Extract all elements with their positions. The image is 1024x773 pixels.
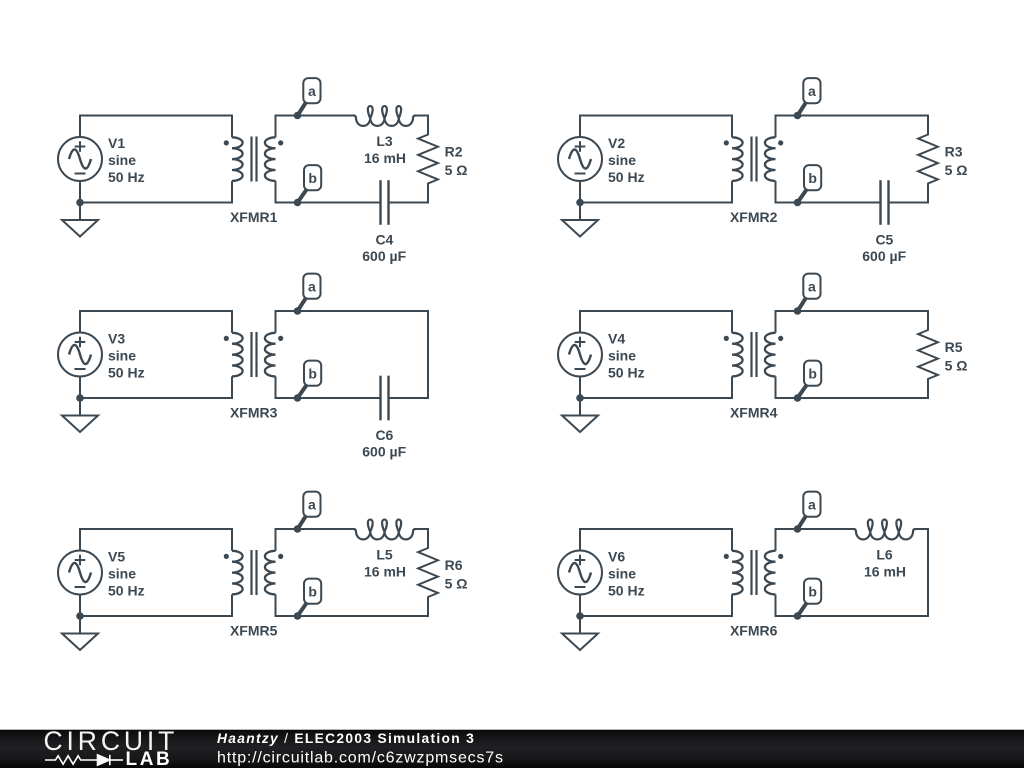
wire right edge (427, 310, 429, 399)
voltage source V5 (sine 50 Hz) (58, 551, 102, 595)
svg-text:R2: R2 (445, 144, 463, 160)
node flag a (circuit 2) (798, 78, 821, 115)
wire XFMR4 secondary top to right edge (776, 310, 930, 312)
R2 value label (445, 144, 468, 178)
svg-text:http://circuitlab.com/c6zwzpms: http://circuitlab.com/c6zwzpmsecs7s (217, 749, 504, 766)
svg-text:16 mH: 16 mH (864, 564, 906, 580)
L6 value label (864, 547, 906, 580)
svg-text:V4: V4 (608, 331, 625, 347)
svg-text:50 Hz: 50 Hz (108, 169, 145, 185)
wire XFMR6 secondary bottom to right edge (776, 615, 930, 617)
node flag b (circuit 6) (798, 579, 822, 616)
voltage source V4 (sine 50 Hz) (558, 333, 602, 377)
svg-text:50 Hz: 50 Hz (108, 365, 145, 381)
junction node a (circuit 1) (294, 112, 302, 120)
wire V1 top to XFMR1 primary (80, 116, 232, 138)
svg-text:a: a (308, 83, 316, 99)
junction node b (circuit 3) (294, 394, 302, 402)
ground (circuit 4) (562, 398, 598, 432)
svg-text:V6: V6 (608, 549, 625, 565)
resistor R5 (918, 310, 938, 399)
wire V5 bottom to XFMR5 primary (80, 595, 232, 617)
voltage source V3 (sine 50 Hz) (58, 333, 102, 377)
capacitor C4 (381, 180, 389, 225)
inductor L3 (354, 106, 416, 126)
node flag a (circuit 5) (298, 492, 321, 529)
wire XFMR4 secondary bottom to right edge (776, 397, 930, 399)
transformer XFMR3 (224, 310, 284, 399)
svg-text:16 mH: 16 mH (364, 150, 406, 166)
node flag a (circuit 3) (298, 274, 321, 311)
C5 value label (862, 232, 906, 265)
junction node b (circuit 5) (294, 612, 302, 620)
wire XFMR3 secondary top to right edge (276, 310, 430, 312)
resistor R2 (418, 115, 438, 204)
inductor L6 (854, 519, 916, 539)
svg-text:5 Ω: 5 Ω (445, 576, 468, 592)
wire V3 bottom to XFMR3 primary (80, 377, 232, 399)
svg-text:a: a (808, 496, 816, 512)
svg-text:V3: V3 (108, 331, 125, 347)
junction node a (circuit 2) (794, 112, 802, 120)
svg-text:LAB: LAB (126, 749, 173, 768)
junction at source minus (circuit 2) (576, 199, 584, 207)
svg-text:b: b (808, 170, 817, 186)
wire capacitor to right edge (389, 397, 430, 399)
voltage source V2 (sine 50 Hz) (558, 137, 602, 181)
svg-text:5 Ω: 5 Ω (445, 162, 468, 178)
svg-text:50 Hz: 50 Hz (608, 583, 645, 599)
svg-text:sine: sine (108, 348, 136, 364)
svg-text:a: a (808, 278, 816, 294)
wire inductor to right edge (915, 528, 929, 530)
svg-text:XFMR3: XFMR3 (230, 405, 278, 421)
svg-text:C6: C6 (375, 427, 393, 443)
transformer XFMR4 (724, 310, 784, 399)
V3 value label (108, 331, 145, 381)
junction node a (circuit 5) (294, 525, 302, 533)
node flag b (circuit 5) (298, 579, 322, 616)
R6 value label (445, 557, 468, 591)
L3 value label (364, 133, 406, 166)
svg-text:600 µF: 600 µF (862, 248, 906, 264)
svg-text:C4: C4 (375, 232, 393, 248)
ground (circuit 5) (62, 616, 98, 650)
wire V2 bottom to XFMR2 primary (580, 181, 732, 203)
C6 value label (362, 427, 406, 460)
svg-text:50 Hz: 50 Hz (108, 583, 145, 599)
svg-text:R3: R3 (945, 144, 963, 160)
junction at source minus (circuit 4) (576, 394, 584, 402)
wire capacitor to right edge (889, 202, 930, 204)
svg-text:R6: R6 (445, 557, 463, 573)
wire V4 bottom to XFMR4 primary (580, 377, 732, 399)
junction node b (circuit 4) (794, 394, 802, 402)
svg-text:b: b (808, 365, 817, 381)
svg-text:XFMR5: XFMR5 (230, 623, 278, 639)
CircuitLab logo resistor-diode glyph (45, 755, 123, 765)
wire capacitor to right edge (389, 202, 430, 204)
node flag b (circuit 3) (298, 361, 322, 398)
svg-text:b: b (308, 583, 317, 599)
svg-text:a: a (308, 496, 316, 512)
V1 value label (108, 135, 145, 185)
wire XFMR6 secondary top to inductor (776, 528, 855, 530)
svg-text:V5: V5 (108, 549, 125, 565)
node flag a (circuit 1) (298, 78, 321, 115)
wire XFMR5 secondary top to inductor (276, 528, 355, 530)
wire V5 top to XFMR5 primary (80, 529, 232, 551)
svg-text:50 Hz: 50 Hz (608, 365, 645, 381)
resistor R6 (418, 528, 438, 617)
svg-text:600 µF: 600 µF (362, 248, 406, 264)
svg-text:a: a (308, 278, 316, 294)
wire V1 bottom to XFMR1 primary (80, 181, 232, 203)
svg-text:V2: V2 (608, 135, 625, 151)
junction node b (circuit 6) (794, 612, 802, 620)
wire V6 bottom to XFMR6 primary (580, 595, 732, 617)
svg-text:L3: L3 (376, 133, 393, 149)
svg-text:16 mH: 16 mH (364, 564, 406, 580)
ground (circuit 3) (62, 398, 98, 432)
svg-text:5 Ω: 5 Ω (945, 162, 968, 178)
wire XFMR2 secondary bottom to capacitor (776, 202, 881, 204)
junction at source minus (circuit 3) (76, 394, 84, 402)
junction node a (circuit 4) (794, 307, 802, 315)
svg-text:sine: sine (108, 566, 136, 582)
node flag b (circuit 2) (798, 165, 822, 202)
svg-text:XFMR4: XFMR4 (730, 405, 778, 421)
svg-text:L5: L5 (376, 547, 393, 563)
transformer XFMR2 (724, 115, 784, 204)
svg-text:L6: L6 (876, 547, 893, 563)
svg-text:sine: sine (608, 348, 636, 364)
wire right edge (927, 528, 929, 617)
transformer XFMR1 (224, 115, 284, 204)
svg-text:b: b (808, 583, 817, 599)
svg-text:5 Ω: 5 Ω (945, 358, 968, 374)
transformer XFMR6 (724, 528, 784, 617)
svg-text:C5: C5 (875, 232, 893, 248)
voltage source V6 (sine 50 Hz) (558, 551, 602, 595)
wire V3 top to XFMR3 primary (80, 311, 232, 333)
junction node b (circuit 1) (294, 199, 302, 207)
svg-text:XFMR6: XFMR6 (730, 623, 778, 639)
svg-text:R5: R5 (945, 339, 963, 355)
svg-text:sine: sine (608, 566, 636, 582)
junction node a (circuit 6) (794, 525, 802, 533)
wire XFMR2 secondary top to right edge (776, 115, 930, 117)
wire XFMR1 secondary top to inductor (276, 115, 355, 117)
node flag a (circuit 6) (798, 492, 821, 529)
resistor R3 (918, 115, 938, 204)
junction at source minus (circuit 1) (76, 199, 84, 207)
wire XFMR1 secondary bottom to capacitor (276, 202, 381, 204)
R3 value label (945, 144, 968, 178)
svg-text:b: b (308, 170, 317, 186)
svg-text:a: a (808, 83, 816, 99)
wire V2 top to XFMR2 primary (580, 116, 732, 138)
wire inductor to right edge (415, 528, 429, 530)
inductor L5 (354, 520, 416, 540)
svg-text:600 µF: 600 µF (362, 444, 406, 460)
junction at source minus (circuit 6) (576, 612, 584, 620)
junction node b (circuit 2) (794, 199, 802, 207)
node flag a (circuit 4) (798, 274, 821, 311)
ground (circuit 2) (562, 203, 598, 237)
wire inductor to right edge (415, 115, 429, 117)
capacitor C5 (881, 180, 889, 225)
junction node a (circuit 3) (294, 307, 302, 315)
ground (circuit 1) (62, 203, 98, 237)
ground (circuit 6) (562, 616, 598, 650)
capacitor C6 (381, 376, 389, 421)
voltage source V1 (sine 50 Hz) (58, 137, 102, 181)
svg-text:b: b (308, 365, 317, 381)
wire XFMR5 secondary bottom to right edge (276, 615, 430, 617)
svg-text:sine: sine (608, 152, 636, 168)
svg-text:sine: sine (108, 152, 136, 168)
svg-text:V1: V1 (108, 135, 125, 151)
wire XFMR3 secondary bottom to capacitor (276, 397, 381, 399)
L5 value label (364, 547, 406, 580)
svg-text:50 Hz: 50 Hz (608, 169, 645, 185)
V2 value label (608, 135, 645, 185)
svg-text:XFMR2: XFMR2 (730, 209, 778, 225)
svg-text:XFMR1: XFMR1 (230, 209, 278, 225)
node flag b (circuit 1) (298, 165, 322, 202)
wire V4 top to XFMR4 primary (580, 311, 732, 333)
node flag b (circuit 4) (798, 361, 822, 398)
transformer XFMR5 (224, 528, 284, 617)
V5 value label (108, 549, 145, 599)
svg-text:Haantzy / ELEC2003 Simulation: Haantzy / ELEC2003 Simulation 3 (217, 731, 475, 746)
wire V6 top to XFMR6 primary (580, 529, 732, 551)
R5 value label (945, 339, 968, 373)
V6 value label (608, 549, 645, 599)
V4 value label (608, 331, 645, 381)
junction at source minus (circuit 5) (76, 612, 84, 620)
C4 value label (362, 232, 406, 265)
